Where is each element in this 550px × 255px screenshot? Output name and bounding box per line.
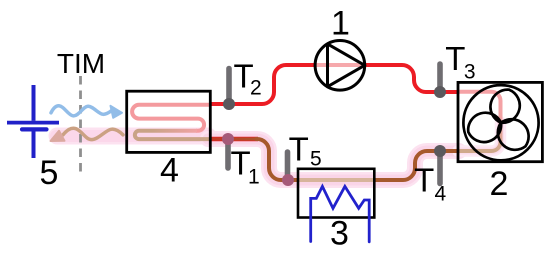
wire: pale pipe U inside radiator 2 [458,92,501,151]
pump 1 (circle) [315,41,365,91]
heat glow band (TIM to cold plate 4) [57,128,208,145]
sensor T3 probe stub [437,64,443,92]
svg-text:4: 4 [160,151,179,189]
radiator 2 (box) [458,82,542,161]
wire: brown return pipe (cold plate 4 to heater 3 to radiator 2) [255,139,457,180]
sensor T4 probe stub [437,151,443,184]
node T1 junction dot [222,133,234,145]
wire: red supply pipe (cold plate 4 to pump 1 to radiator 2) [209,65,457,104]
node T4 junction dot [434,145,446,157]
TIM interface dashed line [79,76,82,176]
wire: pale pipe through heater 3 [299,178,374,182]
svg-text:T: T [289,131,309,168]
svg-text:2: 2 [250,76,262,99]
svg-text:3: 3 [330,214,349,252]
sensor T5 probe stub [285,152,291,180]
svg-text:4: 4 [435,183,447,206]
cold plate 4 (box) [127,91,211,152]
svg-text:5: 5 [310,147,322,170]
wire: serpentine tube inside cold plate 4 [132,105,209,131]
sensor T2 probe stub [226,69,232,105]
heater 3 (box) [298,169,374,218]
heat glow along hot return pipe [208,122,501,180]
heat source 5 (battery cell symbol) [7,85,59,158]
svg-text:3: 3 [464,60,476,83]
radiator 2 fan blades [463,90,535,156]
svg-text:T: T [445,40,465,77]
wire: red underlay at cold plate outlet [209,137,258,142]
svg-text:1: 1 [331,5,350,43]
svg-text:1: 1 [248,166,260,189]
node T5 junction dot [282,174,294,186]
radiator 2 fan circle [463,85,538,160]
svg-text:5: 5 [40,154,59,192]
node T3 junction dot [434,86,446,98]
sensor T1 probe stub [225,139,231,168]
heat flow arrow (tan, back to source) [51,128,124,141]
svg-text:2: 2 [490,165,509,203]
heater 3 resistive element (blue zigzag) [311,186,370,241]
pump 1 (triangle rotor) [328,44,365,87]
svg-text:T: T [414,162,434,199]
svg-text:TIM: TIM [57,48,105,79]
wire: red-to-brown transition segment [209,137,256,140]
node T2 junction dot [223,98,235,110]
heat flow arrow (blue, into cold plate) [51,106,122,118]
wire: pale pipe through pump 1 [316,63,364,67]
